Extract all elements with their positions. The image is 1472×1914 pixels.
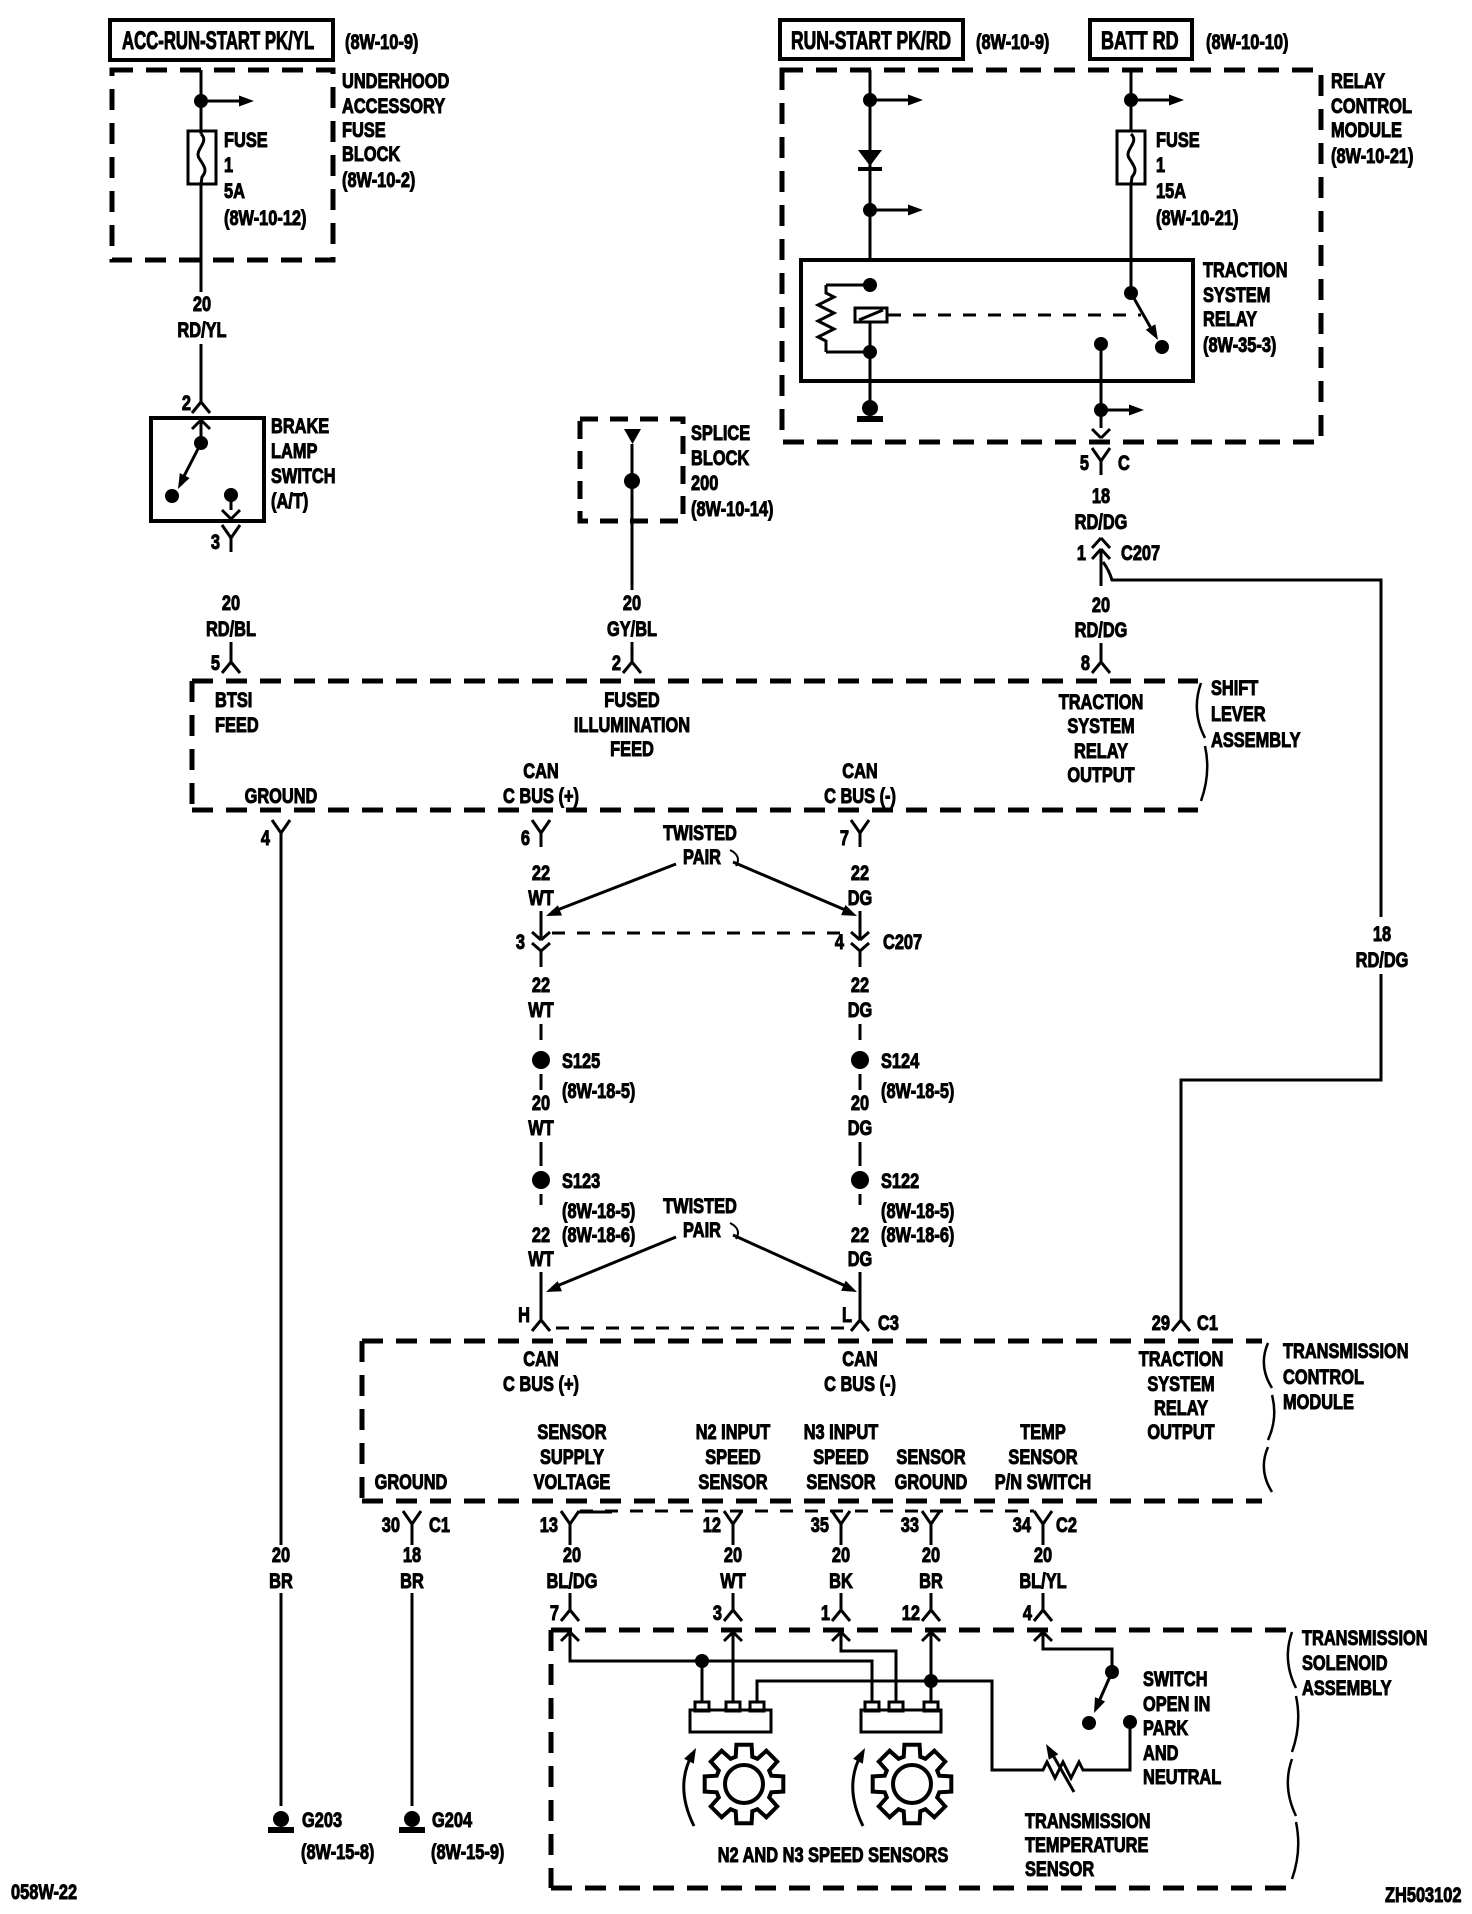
svg-text:34: 34 <box>1013 1513 1032 1536</box>
wire 20 RD/YL <box>200 184 203 292</box>
svg-text:RD/DG: RD/DG <box>1075 510 1128 533</box>
TCM torn edge <box>1264 1343 1274 1492</box>
shift lever torn edge <box>1197 683 1207 801</box>
P/N switch wire <box>1043 1632 1112 1672</box>
svg-text:SENSOR: SENSOR <box>698 1470 768 1493</box>
svg-text:GROUND: GROUND <box>895 1470 968 1493</box>
svg-text:RD/BL: RD/BL <box>206 617 256 640</box>
wire batt feed <box>1130 70 1133 131</box>
diode <box>858 150 882 166</box>
svg-text:RUN-START PK/RD: RUN-START PK/RD <box>791 26 951 55</box>
switch entry arrow <box>192 420 201 429</box>
svg-text:(8W-18-5): (8W-18-5) <box>881 1199 954 1222</box>
svg-text:N2 AND N3 SPEED SENSORS: N2 AND N3 SPEED SENSORS <box>718 1843 949 1866</box>
transmission temperature sensor (thermistor) <box>1037 1762 1086 1778</box>
svg-text:RD/YL: RD/YL <box>177 318 226 341</box>
feed box ACC-RUN-START PK/YL <box>110 20 333 60</box>
junction dot <box>695 1654 709 1668</box>
svg-text:DG: DG <box>848 1116 873 1139</box>
traction system relay box <box>801 260 1193 381</box>
feed box RUN-START PK/RD <box>780 20 963 59</box>
svg-text:RELAY: RELAY <box>1203 307 1257 330</box>
connector 1 C207 <box>1092 538 1101 548</box>
splice S125 <box>532 1051 550 1069</box>
junction dot <box>1094 403 1108 417</box>
P/N switch contact <box>1082 1716 1096 1730</box>
svg-text:(8W-10-9): (8W-10-9) <box>976 30 1049 53</box>
wire 20 BR <box>930 1538 933 1545</box>
svg-text:5A: 5A <box>224 179 245 202</box>
svg-text:G204: G204 <box>432 1808 473 1831</box>
wire run-start feed <box>869 70 872 260</box>
C3 connector line (dashed) <box>556 1327 848 1330</box>
svg-text:SPLICE: SPLICE <box>691 421 750 444</box>
svg-text:C207: C207 <box>1121 541 1160 564</box>
relay switch pivot <box>1124 286 1138 300</box>
connector pin 2 <box>200 388 203 402</box>
svg-text:20: 20 <box>851 1091 869 1114</box>
svg-text:OUTPUT: OUTPUT <box>1067 763 1135 786</box>
svg-text:PAIR: PAIR <box>683 1218 721 1241</box>
splice S124 <box>851 1051 869 1069</box>
svg-text:S123: S123 <box>562 1169 600 1192</box>
switch contact <box>165 489 179 503</box>
svg-text:(A/T): (A/T) <box>271 489 308 512</box>
module exit arrow <box>1092 429 1101 438</box>
svg-text:20: 20 <box>922 1543 940 1566</box>
svg-text:TRANSMISSION: TRANSMISSION <box>1302 1626 1428 1649</box>
relay switch contact <box>1155 340 1169 354</box>
svg-text:TWISTED: TWISTED <box>663 821 737 844</box>
svg-text:1: 1 <box>821 1601 830 1624</box>
svg-text:DG: DG <box>848 886 873 909</box>
svg-text:12: 12 <box>902 1601 920 1624</box>
C2 connector line (dashed) <box>580 1510 1034 1513</box>
svg-text:(8W-18-5): (8W-18-5) <box>562 1079 635 1102</box>
svg-text:LEVER: LEVER <box>1211 702 1266 725</box>
junction dot <box>924 1674 938 1688</box>
svg-text:15A: 15A <box>1156 179 1186 202</box>
svg-text:SUPPLY: SUPPLY <box>540 1445 604 1468</box>
svg-text:7: 7 <box>840 826 849 849</box>
fuse 1 5A <box>188 131 216 184</box>
svg-text:SPEED: SPEED <box>813 1445 869 1468</box>
feed-continues arrow <box>1131 99 1171 102</box>
svg-text:ACC-RUN-START PK/YL: ACC-RUN-START PK/YL <box>122 27 314 55</box>
svg-text:NEUTRAL: NEUTRAL <box>1143 1765 1221 1788</box>
switch blade <box>181 443 201 482</box>
svg-text:WT: WT <box>720 1569 746 1592</box>
svg-text:(8W-10-21): (8W-10-21) <box>1156 206 1238 229</box>
shift lever assembly box (dashed) <box>192 679 1198 684</box>
connector pin 29 C1 <box>1180 1306 1183 1320</box>
svg-text:BK: BK <box>829 1569 853 1592</box>
svg-text:TWISTED: TWISTED <box>663 1194 737 1217</box>
svg-text:(8W-10-14): (8W-10-14) <box>691 497 773 520</box>
svg-text:SYSTEM: SYSTEM <box>1147 1372 1214 1395</box>
svg-text:(8W-10-2): (8W-10-2) <box>342 168 415 191</box>
svg-text:2: 2 <box>182 391 191 414</box>
svg-text:20: 20 <box>532 1091 550 1114</box>
svg-text:SENSOR: SENSOR <box>896 1445 966 1468</box>
junction dot <box>863 93 877 107</box>
P/N switch output contact <box>1123 1715 1137 1729</box>
connector pin 8 <box>1100 648 1103 662</box>
svg-text:WT: WT <box>528 998 554 1021</box>
svg-text:WT: WT <box>528 886 554 909</box>
svg-text:20: 20 <box>724 1543 742 1566</box>
connector 3 C207 <box>532 932 541 940</box>
svg-text:TEMPERATURE: TEMPERATURE <box>1025 1833 1148 1856</box>
svg-text:20: 20 <box>623 591 641 614</box>
relay control module box (dashed) <box>782 70 1321 442</box>
underhood accessory fuse block (dashed) <box>112 70 333 260</box>
connector pin 4 <box>1042 1596 1045 1610</box>
svg-text:20: 20 <box>1034 1543 1052 1566</box>
svg-text:BTSI: BTSI <box>215 688 252 711</box>
svg-text:H: H <box>518 1303 530 1326</box>
svg-text:N3 INPUT: N3 INPUT <box>804 1420 879 1443</box>
svg-text:8: 8 <box>1081 651 1090 674</box>
svg-text:FEED: FEED <box>215 713 259 736</box>
relay coil resistor <box>818 285 834 352</box>
svg-text:C1: C1 <box>429 1513 450 1536</box>
wire 20 BR to G203 <box>280 847 283 1545</box>
wire from feed into fuse block <box>200 70 203 134</box>
svg-text:3: 3 <box>713 1601 722 1624</box>
svg-text:P/N SWITCH: P/N SWITCH <box>995 1470 1091 1493</box>
svg-text:20: 20 <box>1092 593 1110 616</box>
transmission solenoid assembly box (dashed) <box>551 1628 1286 1633</box>
svg-text:SWITCH: SWITCH <box>271 464 336 487</box>
svg-text:TRANSMISSION: TRANSMISSION <box>1283 1339 1409 1362</box>
svg-text:PAIR: PAIR <box>683 845 721 868</box>
svg-text:OPEN IN: OPEN IN <box>1143 1692 1210 1715</box>
connector pin 5 C <box>1092 448 1101 461</box>
svg-text:SOLENOID: SOLENOID <box>1302 1651 1388 1674</box>
svg-text:13: 13 <box>540 1513 558 1536</box>
wire 20 BL/DG <box>569 1538 572 1545</box>
svg-text:GY/BL: GY/BL <box>607 617 657 640</box>
connector pin 13 <box>561 1511 570 1524</box>
branch to TCM wire 18 RD/DG <box>1103 562 1381 917</box>
wire 18 BR to G204 <box>411 1538 414 1545</box>
svg-text:AND: AND <box>1143 1741 1178 1764</box>
svg-text:30: 30 <box>382 1513 400 1536</box>
entry arrow pin 12 <box>922 1632 931 1641</box>
svg-text:ZH503102: ZH503102 <box>1385 1883 1461 1906</box>
N3 sensor gear <box>873 1745 952 1824</box>
svg-text:FUSE: FUSE <box>342 118 386 141</box>
feed-continues arrow <box>870 99 910 102</box>
svg-text:CONTROL: CONTROL <box>1331 94 1412 117</box>
svg-text:C BUS (+): C BUS (+) <box>503 1372 579 1395</box>
svg-text:(8W-10-9): (8W-10-9) <box>345 30 418 53</box>
wire 20 WT <box>732 1538 735 1545</box>
svg-text:20: 20 <box>222 591 240 614</box>
svg-text:33: 33 <box>901 1513 919 1536</box>
svg-text:GROUND: GROUND <box>375 1470 448 1493</box>
svg-text:20: 20 <box>193 292 211 315</box>
P/N switch pivot <box>1105 1665 1119 1679</box>
connector 4 C207 <box>851 932 860 940</box>
ground G203 <box>273 1811 289 1827</box>
wire 22 DG to TCM <box>859 1272 862 1306</box>
connector pin 4 <box>272 820 281 833</box>
svg-text:WT: WT <box>528 1116 554 1139</box>
svg-text:SENSOR: SENSOR <box>806 1470 876 1493</box>
svg-text:BR: BR <box>400 1569 424 1592</box>
feed-continues arrow <box>1101 409 1131 412</box>
svg-text:TEMP: TEMP <box>1020 1420 1066 1443</box>
entry arrow pin 1 <box>832 1632 841 1641</box>
svg-text:FUSED: FUSED <box>604 688 660 711</box>
svg-text:3: 3 <box>211 530 220 553</box>
svg-text:SPEED: SPEED <box>705 1445 761 1468</box>
svg-text:(8W-15-8): (8W-15-8) <box>301 1840 374 1863</box>
splice S123 <box>532 1171 550 1189</box>
svg-text:22: 22 <box>851 973 869 996</box>
svg-text:S122: S122 <box>881 1169 919 1192</box>
relay coil <box>863 278 877 292</box>
transmission control module box (dashed) <box>362 1339 1262 1344</box>
N3 speed sensor connector <box>861 1710 941 1732</box>
connector pin 30 C1 <box>403 1511 412 1524</box>
svg-text:RD/DG: RD/DG <box>1356 948 1409 971</box>
svg-text:RELAY: RELAY <box>1331 69 1385 92</box>
svg-text:FEED: FEED <box>610 737 654 760</box>
junction dot <box>863 203 877 217</box>
svg-text:(8W-18-6): (8W-18-6) <box>562 1223 635 1246</box>
sensor ground wire <box>930 1632 933 1702</box>
svg-text:TRACTION: TRACTION <box>1139 1347 1224 1370</box>
svg-text:SYSTEM: SYSTEM <box>1203 283 1270 306</box>
junction dot <box>1124 93 1138 107</box>
svg-text:N2 INPUT: N2 INPUT <box>696 1420 771 1443</box>
svg-text:3: 3 <box>516 930 525 953</box>
svg-text:C BUS (+): C BUS (+) <box>503 784 579 807</box>
svg-text:BLOCK: BLOCK <box>691 446 750 469</box>
svg-text:6: 6 <box>521 826 530 849</box>
wire to temperature sensor <box>1086 1722 1130 1770</box>
svg-text:SENSOR: SENSOR <box>537 1420 607 1443</box>
C207 connector line (dashed) <box>552 932 849 935</box>
svg-text:SHIFT: SHIFT <box>1211 676 1259 699</box>
switch output contact <box>224 488 238 502</box>
junction dot <box>194 94 208 108</box>
svg-text:200: 200 <box>691 471 718 494</box>
svg-text:S125: S125 <box>562 1049 600 1072</box>
svg-text:VOLTAGE: VOLTAGE <box>534 1470 611 1493</box>
svg-text:RELAY: RELAY <box>1074 739 1128 762</box>
svg-text:22: 22 <box>532 1223 550 1246</box>
splice feed triangle <box>624 429 641 444</box>
svg-text:BR: BR <box>919 1569 943 1592</box>
svg-text:C: C <box>1118 451 1130 474</box>
feed-continues arrow <box>201 100 241 103</box>
svg-text:22: 22 <box>851 861 869 884</box>
sensor supply wire <box>570 1632 872 1702</box>
svg-text:12: 12 <box>703 1513 721 1536</box>
connector pin 34 C2 <box>1034 1511 1043 1524</box>
svg-text:TRACTION: TRACTION <box>1059 690 1144 713</box>
feed box BATT RD <box>1090 20 1192 59</box>
svg-text:(8W-10-21): (8W-10-21) <box>1331 144 1413 167</box>
svg-text:FUSE: FUSE <box>1156 128 1200 151</box>
connector pin 5 <box>230 648 233 662</box>
svg-text:(8W-18-5): (8W-18-5) <box>881 1079 954 1102</box>
svg-text:GROUND: GROUND <box>245 784 318 807</box>
svg-text:C2: C2 <box>1056 1513 1077 1536</box>
svg-text:CONTROL: CONTROL <box>1283 1365 1364 1388</box>
svg-text:C3: C3 <box>878 1311 899 1334</box>
switch common contact <box>194 436 208 450</box>
N3 signal wire <box>841 1632 896 1702</box>
svg-text:2: 2 <box>612 651 621 674</box>
svg-text:(8W-35-3): (8W-35-3) <box>1203 333 1276 356</box>
N2 sensor gear <box>705 1745 784 1824</box>
svg-text:1: 1 <box>224 153 233 176</box>
svg-text:4: 4 <box>1023 1601 1033 1624</box>
entry arrow pin 7 <box>561 1632 570 1641</box>
svg-text:MODULE: MODULE <box>1331 118 1402 141</box>
connector pin 7 <box>569 1596 572 1610</box>
svg-text:SWITCH: SWITCH <box>1143 1667 1208 1690</box>
connector pin 6 <box>532 820 541 833</box>
svg-text:FUSE: FUSE <box>224 128 268 151</box>
svg-text:20: 20 <box>563 1543 581 1566</box>
wire to N2 sensor supply <box>701 1661 704 1702</box>
svg-text:22: 22 <box>532 973 550 996</box>
N2 signal wire <box>732 1632 735 1702</box>
connector pin 3 <box>222 525 231 538</box>
svg-text:1: 1 <box>1156 153 1165 176</box>
wire 20 BL/YL <box>1042 1538 1045 1545</box>
svg-text:C207: C207 <box>883 930 922 953</box>
svg-text:BLOCK: BLOCK <box>342 142 401 165</box>
svg-text:PARK: PARK <box>1143 1716 1189 1739</box>
svg-text:SYSTEM: SYSTEM <box>1067 714 1134 737</box>
svg-text:G203: G203 <box>302 1808 342 1831</box>
ground G204 <box>404 1811 420 1827</box>
svg-text:C1: C1 <box>1197 1311 1218 1334</box>
svg-text:DG: DG <box>848 998 873 1021</box>
svg-text:LAMP: LAMP <box>271 439 317 462</box>
svg-text:(8W-18-5): (8W-18-5) <box>562 1199 635 1222</box>
svg-text:1: 1 <box>1077 541 1086 564</box>
connector pin 2 <box>631 648 634 662</box>
feed-continues arrow <box>870 209 910 212</box>
svg-text:BL/YL: BL/YL <box>1019 1569 1066 1592</box>
twisted pair arrow right <box>733 1235 850 1288</box>
ground bus wire <box>757 1681 1037 1770</box>
svg-text:WT: WT <box>528 1247 554 1270</box>
solenoid torn edge <box>1288 1632 1298 1879</box>
svg-text:ILLUMINATION: ILLUMINATION <box>574 713 690 736</box>
svg-text:(8W-10-10): (8W-10-10) <box>1206 30 1288 53</box>
N2 speed sensor connector <box>690 1710 771 1732</box>
relay coil wire to ground <box>869 322 872 400</box>
svg-text:C BUS (-): C BUS (-) <box>824 784 896 807</box>
wire 22 WT to TCM <box>540 1272 543 1306</box>
svg-text:CAN: CAN <box>842 759 877 782</box>
wire 20 BK <box>840 1538 843 1545</box>
connector pin 12 <box>930 1596 933 1610</box>
svg-text:CAN: CAN <box>523 759 558 782</box>
svg-text:TRANSMISSION: TRANSMISSION <box>1025 1809 1151 1832</box>
svg-text:20: 20 <box>832 1543 850 1566</box>
fuse 1 15A <box>1117 131 1145 184</box>
relay switch blade <box>1131 293 1152 330</box>
svg-text:DG: DG <box>848 1247 873 1270</box>
P/N switch blade <box>1097 1672 1112 1706</box>
svg-text:ASSEMBLY: ASSEMBLY <box>1302 1676 1392 1699</box>
svg-text:5: 5 <box>1080 451 1089 474</box>
svg-text:C BUS (-): C BUS (-) <box>824 1372 896 1395</box>
svg-text:OUTPUT: OUTPUT <box>1147 1420 1215 1443</box>
svg-text:RELAY: RELAY <box>1154 1396 1208 1419</box>
relay link (dashed) <box>888 314 1141 317</box>
svg-text:BATT RD: BATT RD <box>1101 26 1179 55</box>
svg-text:20: 20 <box>272 1543 290 1566</box>
svg-text:(8W-18-6): (8W-18-6) <box>881 1223 954 1246</box>
svg-text:ASSEMBLY: ASSEMBLY <box>1211 728 1301 751</box>
svg-text:22: 22 <box>851 1223 869 1246</box>
svg-text:22: 22 <box>532 861 550 884</box>
svg-text:SENSOR: SENSOR <box>1025 1857 1095 1880</box>
resistor links <box>826 284 870 287</box>
twisted pair arrow left <box>552 1237 676 1288</box>
N3 rotation arrow <box>853 1753 863 1826</box>
splice block 200 (dashed) <box>580 419 683 521</box>
svg-text:L: L <box>842 1303 852 1326</box>
connector pin L C3 <box>859 1306 862 1320</box>
splice dot <box>624 473 640 489</box>
svg-text:SENSOR: SENSOR <box>1008 1445 1078 1468</box>
svg-text:BL/DG: BL/DG <box>547 1569 598 1592</box>
connector pin 33 <box>922 1511 931 1524</box>
svg-text:CAN: CAN <box>842 1347 877 1370</box>
svg-text:4: 4 <box>261 826 271 849</box>
svg-text:35: 35 <box>811 1513 829 1536</box>
svg-text:5: 5 <box>211 651 220 674</box>
wire 20 GY/BL <box>631 444 634 590</box>
connector pin 35 <box>832 1511 841 1524</box>
svg-text:29: 29 <box>1152 1311 1170 1334</box>
connector pin 12 <box>724 1511 733 1524</box>
connector pin H <box>540 1306 543 1320</box>
relay output wire <box>1094 337 1108 351</box>
svg-text:BR: BR <box>269 1569 293 1592</box>
svg-text:MODULE: MODULE <box>1283 1390 1354 1413</box>
svg-text:7: 7 <box>550 1601 559 1624</box>
svg-text:18: 18 <box>1373 922 1391 945</box>
svg-text:058W-22: 058W-22 <box>11 1880 77 1903</box>
svg-text:ACCESSORY: ACCESSORY <box>342 94 446 117</box>
twisted pair arrow right <box>733 862 850 912</box>
entry arrow pin 3 <box>724 1632 733 1641</box>
wire 20 RD/DG <box>1100 571 1103 586</box>
svg-text:TRACTION: TRACTION <box>1203 258 1288 281</box>
svg-text:(8W-10-12): (8W-10-12) <box>224 206 306 229</box>
connector pin 3 <box>732 1596 735 1610</box>
svg-text:BRAKE: BRAKE <box>271 414 329 437</box>
N2 rotation arrow <box>684 1753 694 1826</box>
entry arrow pin 4 <box>1034 1632 1043 1641</box>
svg-text:CAN: CAN <box>523 1347 558 1370</box>
ground <box>862 400 878 416</box>
svg-text:RD/DG: RD/DG <box>1075 618 1128 641</box>
